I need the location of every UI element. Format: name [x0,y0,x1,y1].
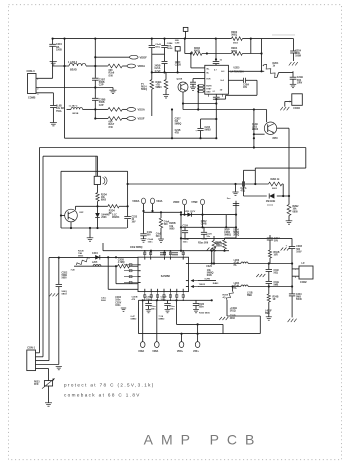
svg-text:47B: 47B [175,132,180,135]
svg-text:100k 5MBQ: 100k 5MBQ [130,247,143,249]
svg-text:47Q: 47Q [241,189,246,192]
svg-text:5MB: 5MB [274,285,279,287]
svg-text:SA58B8: SA58B8 [161,275,171,278]
svg-text:5R2Q: 5R2Q [141,89,147,91]
svg-text:R2D4: R2D4 [109,209,116,212]
svg-text:SVR: SVR [206,79,211,81]
svg-text:V33A: V33A [156,200,162,203]
svg-text:5MB: 5MB [265,313,270,315]
svg-text:/1W: /1W [109,74,114,77]
svg-text:R24B: R24B [273,296,279,299]
svg-text:50Q: 50Q [274,273,279,275]
svg-text:L205: L205 [92,262,98,264]
svg-text:1 L204 2: 1 L204 2 [68,61,78,64]
svg-text:100n: 100n [115,300,121,302]
svg-text:16V: 16V [132,222,137,224]
svg-text:5B03: 5B03 [62,293,68,295]
svg-text:comeback at 68 C 1.8V: comeback at 68 C 1.8V [64,392,141,397]
svg-text:50V: 50V [274,241,279,243]
svg-text:100M: 100M [167,48,173,50]
svg-text:560Q: 560Q [231,35,237,37]
svg-text:5MB: 5MB [247,295,252,297]
svg-text:C343: C343 [296,293,302,296]
svg-text:Q2xB: Q2xB [177,79,183,81]
svg-text:5uPB: 5uPB [205,279,211,281]
svg-text:24DB: 24DB [155,65,161,68]
svg-text:STBY: STBY [206,88,212,90]
svg-text:750A: 750A [56,110,62,113]
svg-text:C2M: C2M [175,43,180,45]
svg-text:4Q: 4Q [223,296,226,299]
svg-text:5600: 5600 [62,278,68,280]
svg-text:100n: 100n [199,307,205,309]
svg-text:V3D+: V3D+ [193,351,199,353]
svg-text:VDD+: VDD+ [177,351,184,353]
svg-text:VSSF: VSSF [138,117,145,121]
svg-text:51B4: 51B4 [233,228,239,231]
svg-text:CON-3: CON-3 [27,69,36,73]
svg-text:2003: 2003 [230,318,236,320]
svg-text:R2D4: R2D4 [231,47,238,50]
svg-text:V3BA: V3BA [152,350,158,353]
svg-text:VR2 (1)7V: VR2 (1)7V [185,211,196,213]
svg-text:5MB2: 5MB2 [131,318,138,320]
svg-text:+: + [286,243,288,247]
svg-text:16V: 16V [243,87,248,89]
svg-text:MUTE: MUTE [206,85,212,87]
svg-text:IN-: IN- [206,73,209,75]
svg-text:C324: C324 [183,225,189,228]
svg-text:PA: PA [234,264,237,267]
svg-text:0603: 0603 [233,43,239,45]
svg-text:/1W: /1W [109,126,114,129]
svg-text:1 L1B7 2: 1 L1B7 2 [69,106,79,108]
svg-text:C2B4: C2B4 [224,231,231,234]
svg-text:3R1Q: 3R1Q [230,311,236,313]
svg-text:C2B4: C2B4 [243,84,250,87]
svg-text:70B13: 70B13 [199,284,206,286]
svg-text:VDDA: VDDA [132,200,139,203]
svg-text:R2B4 1k: R2B4 1k [271,178,281,181]
svg-text:V3DA: V3DA [138,350,144,353]
svg-text:5MB3: 5MB3 [205,130,212,132]
svg-text:0603: 0603 [272,188,278,190]
svg-text:100M: 100M [295,56,301,58]
svg-text:100V: 100V [297,82,303,84]
svg-text:FFD: FFD [34,384,39,386]
svg-text:CON4: CON4 [293,107,300,110]
svg-text:100n: 100n [115,305,121,307]
svg-text:5MB3: 5MB3 [156,87,163,89]
svg-text:5600: 5600 [101,300,107,302]
svg-text:LF: LF [302,261,306,265]
svg-text:COMB: COMB [28,96,36,99]
svg-text:C2xB: C2xB [202,239,208,241]
svg-text:100V: 100V [296,251,302,253]
svg-text:10R: 10R [274,254,279,256]
svg-text:R4B3: R4B3 [213,282,219,285]
svg-text:C21A: C21A [155,67,161,70]
svg-text:4.7: 4.7 [214,69,217,72]
svg-text:1R: 1R [273,299,276,301]
svg-text:C2P: C2P [99,84,104,87]
svg-text:R3xx 5R6: R3xx 5R6 [198,242,209,244]
svg-text:100n: 100n [183,241,189,243]
svg-text:0805: 0805 [101,200,107,202]
svg-text:100n: 100n [148,241,154,243]
svg-text:5Q4: 5Q4 [297,79,302,82]
svg-text:8050: 8050 [273,138,279,140]
svg-text:CON2: CON2 [300,281,307,284]
svg-text:500L: 500L [155,46,161,48]
svg-text:VDDF: VDDF [173,201,180,204]
svg-text:protect at 78 C (2.5V,3.1k: protect at 78 C (2.5V,3.1k) [64,382,155,387]
svg-text:VTMF: VTMF [191,201,198,204]
svg-text:0B03: 0B03 [78,255,84,257]
svg-text:VSSA: VSSA [138,108,145,112]
svg-text:CON-1: CON-1 [27,347,35,350]
svg-text:ZD2D4: ZD2D4 [112,216,120,219]
svg-text:5MBQ: 5MBQ [224,235,231,237]
svg-text:600Q: 600Q [194,51,200,53]
svg-text:2R2Q: 2R2Q [233,235,239,237]
svg-text:BAD2: BAD2 [252,128,259,131]
svg-text:C320: C320 [206,265,212,268]
svg-text:C34B: C34B [201,223,207,226]
svg-text:5MBQ: 5MBQ [175,124,182,126]
svg-text:GND: GND [206,91,211,93]
svg-text:7uB: 7uB [71,270,76,272]
svg-text:0805: 0805 [293,211,299,213]
svg-text:560Q: 560Q [231,51,237,53]
svg-text:R2D4: R2D4 [101,193,108,196]
svg-text:2003: 2003 [101,217,107,219]
svg-text:U2D5: U2D5 [234,68,241,70]
svg-text:AMP PCB: AMP PCB [144,432,263,448]
svg-text:1N414E: 1N414E [266,199,276,203]
svg-text:BEAD: BEAD [70,69,77,72]
svg-text:VDDF: VDDF [140,55,148,59]
svg-text:E2F: E2F [80,212,85,214]
svg-text:100n: 100n [161,299,167,301]
svg-text:R21A: R21A [217,242,223,245]
svg-text:1A TDA7266: 1A TDA7266 [230,70,244,73]
svg-text:BE1B: BE1B [73,113,79,115]
svg-text:150B: 150B [56,49,62,52]
svg-text:100n: 100n [170,308,176,310]
svg-text:C234: C234 [205,126,211,129]
svg-text:PA: PA [234,287,237,290]
svg-text:VDDA: VDDA [138,64,146,68]
svg-text:500N: 500N [296,299,302,301]
svg-text:(xxx): (xxx) [268,205,273,207]
svg-text:5MB2: 5MB2 [159,318,166,320]
svg-text:R3/9: R3/9 [207,275,213,277]
svg-text:4.7MQ: 4.7MQ [118,261,125,264]
svg-text:C404: C404 [92,252,98,255]
svg-text:0.1: 0.1 [213,91,216,93]
svg-text:C2P: C2P [99,104,104,107]
svg-text:100n: 100n [151,308,157,310]
svg-text:R014: R014 [141,86,147,89]
svg-text:520B: 520B [217,245,223,247]
svg-text:R330 0805: R330 0805 [199,312,210,314]
svg-text:0805: 0805 [169,228,175,230]
svg-text:C2DB: C2DB [175,65,182,67]
svg-text:100n: 100n [146,299,152,301]
